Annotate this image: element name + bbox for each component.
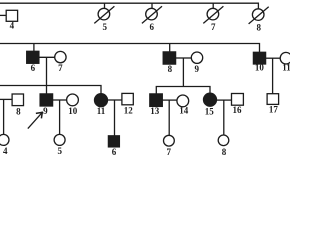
proband arrow shaft (28, 113, 42, 129)
individual III-15 affected female (204, 93, 217, 106)
descent line to IV-6 (114, 100, 116, 136)
wire stub to II-8 (169, 44, 171, 52)
couple line III-11 III-12 (108, 99, 122, 101)
individual IV-8 female (218, 135, 229, 146)
svg-text:5: 5 (102, 22, 107, 32)
svg-text:8: 8 (16, 106, 21, 116)
couple line III-9 III-10 (53, 99, 67, 101)
individual IV-5 female (54, 134, 65, 145)
individual I-5 female circle deceased (98, 8, 110, 20)
couple line III-15 III-16 (217, 99, 232, 101)
svg-text:12: 12 (124, 105, 134, 115)
svg-text:7: 7 (211, 22, 216, 32)
individual III-8 male (12, 94, 23, 106)
svg-text:8: 8 (168, 64, 173, 74)
svg-text:4: 4 (10, 21, 15, 31)
couple line III-13 III-14 (162, 99, 177, 101)
svg-text:9: 9 (195, 64, 200, 74)
couple line II-8 II-9 (176, 57, 192, 59)
svg-text:6: 6 (31, 63, 36, 73)
descent line to IV-8 (223, 100, 225, 135)
svg-text:8: 8 (256, 23, 261, 33)
individual I-6 female circle deceased (146, 8, 158, 20)
individual II-7 female (55, 51, 66, 62)
slash I-6 (142, 6, 162, 23)
individual III-9 affected male proband (40, 94, 53, 106)
svg-text:9: 9 (43, 106, 48, 116)
sibship line generation III group A (0, 86, 101, 94)
svg-text:10: 10 (255, 63, 265, 73)
slash I-5 (94, 6, 114, 23)
individual I-7 female circle deceased (207, 8, 219, 20)
individual II-11 female (280, 52, 292, 64)
individual III-11 affected female (95, 94, 108, 107)
svg-text:7: 7 (167, 147, 172, 157)
svg-text:10: 10 (68, 106, 78, 116)
wire stub to I-7 (212, 3, 214, 8)
couple line I-4 to left edge (0, 14, 6, 16)
svg-text:6: 6 (149, 22, 154, 32)
wire stub to I-6 (151, 3, 153, 8)
couple line II-10 II-11 (266, 57, 281, 59)
individual II-10 affected male (253, 52, 265, 64)
individual IV-7 female (164, 135, 175, 146)
svg-text:5: 5 (58, 146, 63, 156)
couple line II-6 II-7 (39, 56, 55, 58)
individual II-6 affected male (27, 51, 39, 63)
individual I-8 female circle deceased (252, 9, 264, 21)
descent line to IV-4 (3, 99, 5, 134)
individual III-12 male (122, 93, 133, 104)
individual III-13 affected male (150, 94, 163, 107)
couple line left edge to III-8 (0, 98, 12, 100)
individual III-10 female (67, 94, 79, 106)
descent line from II-8/II-9 to sibship B (182, 58, 184, 87)
individual III-17 male (267, 94, 279, 105)
individual III-14 female (177, 95, 189, 107)
svg-text:13: 13 (150, 106, 160, 116)
individual I-4 male square (6, 10, 17, 21)
slash I-8 (249, 7, 269, 24)
wire stub to I-5 (104, 3, 106, 8)
sibship line generation II (0, 44, 260, 53)
svg-text:15: 15 (205, 107, 215, 117)
svg-text:4: 4 (3, 146, 8, 156)
individual III-16 male (232, 94, 244, 106)
sibship line generation III group B (156, 87, 210, 94)
individual IV-4 female (0, 134, 9, 145)
descent line from II-6/II-7 to III-9 (46, 57, 48, 94)
svg-text:6: 6 (112, 147, 117, 157)
individual II-9 female (191, 52, 202, 63)
wire stub to II-6 (33, 44, 35, 52)
proband arrow head (37, 112, 43, 117)
individual II-8 affected male (163, 52, 175, 64)
individual IV-6 affected male (108, 136, 119, 147)
descent line from II-10/II-11 to III-17 (272, 58, 274, 93)
svg-text:17: 17 (269, 105, 279, 115)
svg-text:16: 16 (233, 105, 243, 115)
svg-text:14: 14 (179, 106, 189, 116)
descent line to IV-7 (168, 100, 170, 135)
sibship line generation I (0, 3, 258, 9)
svg-text:11: 11 (282, 63, 290, 73)
svg-text:11: 11 (97, 106, 106, 116)
svg-text:8: 8 (222, 147, 227, 157)
svg-text:7: 7 (58, 63, 63, 73)
slash I-7 (203, 6, 223, 23)
descent line to IV-5 (59, 100, 61, 135)
